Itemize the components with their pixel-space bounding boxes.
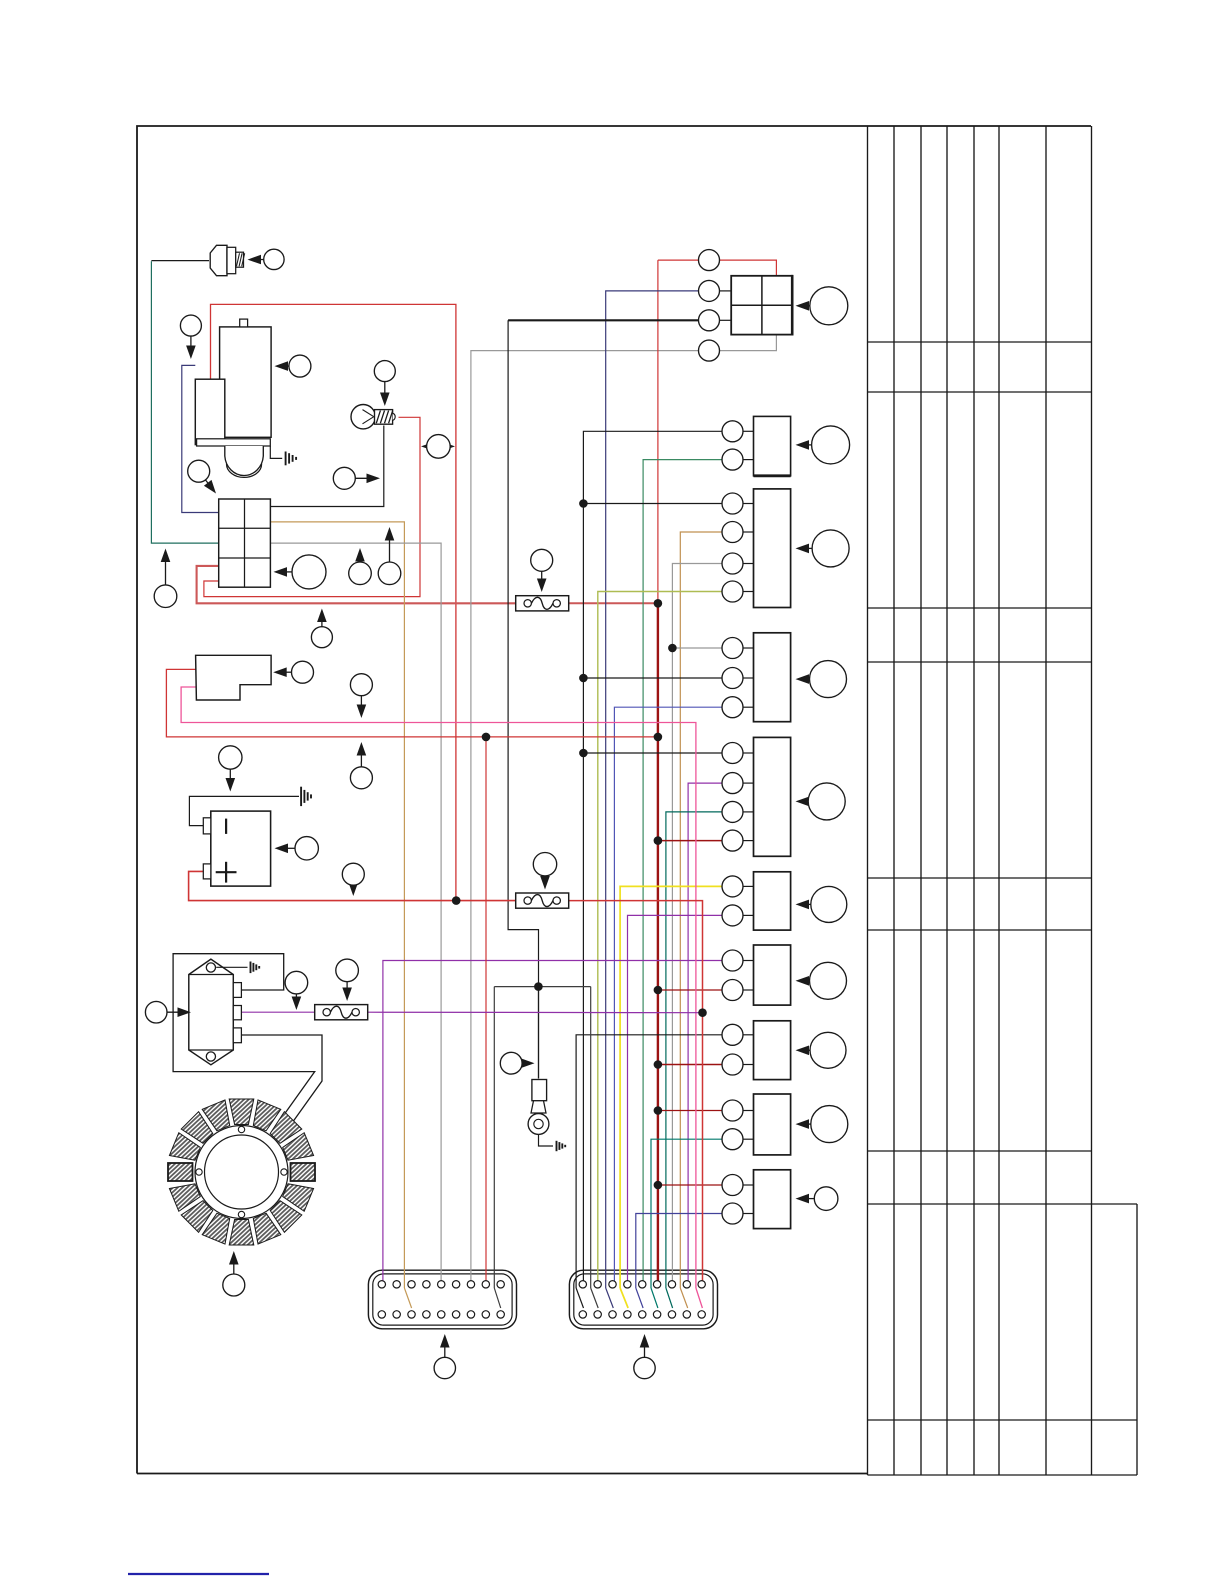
fuse F1 callout <box>541 571 543 586</box>
switch box U10 <box>754 1170 791 1229</box>
wire: gray box3 pin3 <box>672 564 722 1282</box>
U3 callout <box>802 547 813 549</box>
pin connector <box>722 1129 743 1150</box>
relay box U5 <box>754 737 791 856</box>
wire: stator lead 1 <box>241 1035 322 1127</box>
connector A pin top 2 <box>393 1281 400 1288</box>
connector A callout <box>444 1340 446 1357</box>
connector A pin top 8 <box>482 1281 489 1288</box>
wire junction <box>654 599 663 608</box>
connector B pin top 2 <box>594 1281 601 1288</box>
wire: black link stem <box>538 987 540 1079</box>
connector B pin top 9 <box>698 1281 705 1288</box>
connector A pin top 3 <box>408 1281 415 1288</box>
wire: black branch box5 pin1 <box>583 752 722 754</box>
wire: black link right arm <box>590 987 592 1288</box>
pin connector <box>722 553 743 574</box>
U7 callout <box>802 980 810 982</box>
connector B pin top 6 <box>653 1281 660 1288</box>
horn callout <box>279 671 291 673</box>
stator bolt hole <box>196 1169 202 1175</box>
connector A pin top 4 <box>423 1281 430 1288</box>
pin connector <box>722 449 743 470</box>
fuse F2 <box>516 893 569 908</box>
ring terminal callout <box>522 1062 528 1064</box>
pin connector <box>722 830 743 851</box>
pin connector <box>722 1100 743 1121</box>
connector B pin bottom 7 <box>668 1311 675 1318</box>
wire: starter ground link <box>270 446 282 458</box>
wire junction <box>654 1106 663 1115</box>
rectifier regulator <box>189 959 234 1065</box>
black-wire callout <box>355 477 374 479</box>
fuse F2 callout <box>544 876 546 884</box>
switch box U8 <box>754 1021 791 1080</box>
wire: battery positive feed <box>189 871 516 900</box>
stator coil <box>202 1100 230 1131</box>
battery minus mark <box>225 819 227 834</box>
wire: red horn feed <box>166 669 658 737</box>
connector A pin bottom 6 <box>452 1311 459 1318</box>
stator coil <box>168 1163 193 1181</box>
pin connector <box>722 581 743 602</box>
connector B pin top 4 <box>624 1281 631 1288</box>
connector B pin bottom 2 <box>594 1311 601 1318</box>
stator coil <box>270 1112 302 1144</box>
horn <box>196 655 272 700</box>
pin connector <box>722 638 743 659</box>
gray wire callout <box>359 554 361 562</box>
pin connector <box>722 950 743 971</box>
connector B pin bottom 1 <box>579 1311 586 1318</box>
key switch big callout <box>280 571 293 573</box>
connector A pin bottom 7 <box>467 1311 474 1318</box>
wire: olive box3 pin4 <box>598 592 722 1282</box>
battery ground <box>300 787 302 806</box>
U4 callout <box>802 678 810 680</box>
stator bolt hole <box>238 1126 244 1132</box>
stator callout <box>233 1257 235 1274</box>
wire: red branch connectorA pin8 <box>485 737 487 1281</box>
connector B pin top 3 <box>609 1281 616 1288</box>
pin connector <box>722 668 743 689</box>
pin connector <box>722 905 743 926</box>
connector A pin bottom 4 <box>423 1311 430 1318</box>
U1 pin 4 <box>699 340 720 361</box>
connector A pin top 9 <box>497 1281 504 1288</box>
wire: green choke pin2 <box>643 460 722 1281</box>
U6 callout <box>802 903 811 905</box>
wire: gray switch output <box>270 543 441 1281</box>
wire junction <box>654 836 663 845</box>
wire junction <box>482 733 491 742</box>
stator coil <box>229 1220 254 1246</box>
stator coil <box>169 1184 200 1212</box>
wire: black keyswitch pin3 thick <box>508 319 698 321</box>
connector A pin bottom 1 <box>378 1311 385 1318</box>
starter end dome <box>225 446 263 475</box>
U1 pin 3 <box>699 310 720 331</box>
double arrow callout <box>423 445 453 447</box>
connector A pin bottom 2 <box>393 1311 400 1318</box>
pin connector <box>722 1054 743 1075</box>
connector A pin top 1 <box>378 1281 385 1288</box>
wire: purple connectorA-to-box7 <box>383 961 722 1282</box>
fuse F3 callout <box>346 982 348 995</box>
connector A pin top 7 <box>467 1281 474 1288</box>
connector B callout <box>644 1340 646 1357</box>
switch box U9 <box>754 1094 791 1155</box>
wire: red rail upper <box>657 260 659 603</box>
wire: battery negative to ground <box>189 796 299 825</box>
connector A pin bottom 3 <box>408 1311 415 1318</box>
wire junction <box>698 1008 707 1017</box>
wire: black branch box4 pin2 <box>583 677 722 679</box>
pin connector <box>722 743 743 764</box>
red-feed callout up <box>360 748 362 767</box>
wire junction <box>654 1181 663 1190</box>
switch box U7 <box>754 945 791 1005</box>
wire: spark plug lead <box>151 260 209 262</box>
regulator ground <box>250 962 252 974</box>
wire: dark-red branch box8 pin2 <box>658 1064 722 1066</box>
wire: dark-red power rail <box>657 603 659 1281</box>
wire: purple box6 pin2 <box>628 915 723 1281</box>
pin connector <box>722 522 743 543</box>
stator coil <box>270 1201 302 1233</box>
key switch block <box>219 499 271 587</box>
red-wire callout up <box>321 615 323 627</box>
stator coil <box>181 1201 213 1233</box>
pin connector <box>722 421 743 442</box>
wire: red fuse2 to rail corner <box>569 901 703 1281</box>
connector A pin bottom 9 <box>497 1311 504 1318</box>
fuse F1 <box>516 596 569 611</box>
wire: black link left arm <box>493 987 495 1288</box>
regulator callout <box>167 1011 185 1013</box>
legend table grid <box>867 126 869 1475</box>
pin connector <box>722 1175 743 1196</box>
solenoid callout <box>190 336 192 353</box>
wire: red solenoid feed <box>211 304 456 900</box>
wire junction <box>668 644 677 653</box>
pin connector <box>722 1203 743 1224</box>
connector A housing <box>368 1270 516 1329</box>
stator coil <box>181 1112 213 1144</box>
wire: dark-red branch box10 pin1 <box>658 1184 722 1186</box>
wire junction <box>579 749 588 758</box>
connector A pin bottom 5 <box>438 1311 445 1318</box>
stator bolt hole <box>238 1211 244 1217</box>
U1 pin 2 <box>699 280 720 301</box>
stator bolt hole <box>281 1169 287 1175</box>
stator coil <box>229 1099 254 1125</box>
U2 callout <box>802 444 812 446</box>
switch box U6 <box>754 872 791 930</box>
wire: branch box3 pin1 <box>583 503 722 505</box>
wire: tan switch output <box>270 522 404 1288</box>
wire junction <box>654 986 663 995</box>
pin connector <box>722 697 743 718</box>
connector B housing <box>569 1270 717 1329</box>
stator coil <box>283 1133 314 1161</box>
starter motor <box>220 327 272 437</box>
stator coil <box>283 1184 314 1212</box>
stator coil <box>253 1213 280 1244</box>
pin connector <box>722 1024 743 1045</box>
purple wire callout <box>295 994 297 1004</box>
wire: keyswitch red loop right <box>720 260 777 276</box>
wire: black link bar <box>494 986 590 988</box>
wire: tan box3 pin2 <box>680 532 722 1288</box>
wire: red fuse1 to rail <box>569 602 658 604</box>
stator coil <box>253 1100 280 1131</box>
pin connector <box>722 980 743 1001</box>
keyswitch assy box U1 <box>731 276 792 335</box>
wire junction <box>534 982 543 991</box>
relay box U4 <box>754 633 791 722</box>
wire: purple box5 pin2 <box>688 783 722 1281</box>
fuse F3 <box>315 1005 368 1020</box>
pin connector <box>722 493 743 514</box>
wire: purple fuse3 to rail <box>367 1011 703 1014</box>
pin connector <box>722 801 743 822</box>
relay box U3 <box>754 489 791 608</box>
wire: dark-red branch box5 pin4 <box>658 840 722 842</box>
wire: red keyswitch pin1 <box>658 259 699 261</box>
wire: purple regulator to fuse3 <box>241 1011 315 1013</box>
starter ground <box>285 452 287 466</box>
pin connector <box>722 876 743 897</box>
connector B pin bottom 9 <box>698 1311 705 1318</box>
wire junction <box>579 674 588 683</box>
wire: regulator ground link <box>216 966 247 968</box>
U8 callout <box>802 1049 811 1051</box>
U1 callout <box>802 305 810 307</box>
stator coil <box>291 1163 316 1181</box>
wire: blue-violet box4 pin3 <box>614 707 722 1281</box>
wire: black switch-to-bulb <box>270 426 383 507</box>
indicator bulb <box>351 405 375 429</box>
wire: black box8 pin1 <box>576 1035 722 1288</box>
wire: navy keyswitch pin2 <box>606 291 699 1288</box>
wire: red bulb loop <box>204 417 420 596</box>
stator coil <box>202 1213 230 1244</box>
connector A pin top 6 <box>452 1281 459 1288</box>
connector A pin top 5 <box>438 1281 445 1288</box>
starter solenoid <box>195 379 225 444</box>
pin connector <box>722 773 743 794</box>
wire: teal box5 pin3 <box>666 812 722 1288</box>
pink-wire callout down <box>360 696 362 712</box>
wire: pink horn wire <box>181 687 696 1288</box>
wire: red switch-to-fuse loop <box>197 566 516 603</box>
inline fuse holder <box>532 1080 547 1101</box>
U10 callout <box>802 1198 815 1200</box>
wire junction <box>654 1060 663 1069</box>
spark plug <box>210 245 227 275</box>
stator magneto <box>195 1126 288 1219</box>
starter base plate <box>197 439 271 446</box>
bulb callout <box>384 382 386 400</box>
wire: navy box10 pin2 <box>636 1214 722 1289</box>
connector A pin bottom 8 <box>482 1311 489 1318</box>
wire: ring terminal ground link <box>539 1135 554 1147</box>
wire junction <box>654 733 663 742</box>
bulb socket <box>375 410 393 425</box>
footer rule <box>128 1573 269 1575</box>
wire: black accessory rail <box>583 431 722 1281</box>
wire: gray keyswitch pin4 <box>471 351 699 1281</box>
spark plug callout <box>253 258 263 260</box>
battery callout top <box>229 769 231 785</box>
wire: teal plug-to-switch <box>151 261 218 543</box>
connector B pin top 7 <box>668 1281 675 1288</box>
wire: gray branch box4 pin1 <box>672 647 722 649</box>
connector B pin bottom 4 <box>624 1311 631 1318</box>
battery plus mark <box>225 862 227 883</box>
wire junction <box>579 499 588 508</box>
connector B pin bottom 6 <box>653 1311 660 1318</box>
battery callout right <box>281 847 296 849</box>
stator coil <box>169 1133 200 1161</box>
U5 callout <box>802 800 809 802</box>
wire: dark-red branch box9 pin1 <box>658 1110 722 1112</box>
ring terminal <box>531 1101 546 1113</box>
connector B pin bottom 8 <box>683 1311 690 1318</box>
U1 pin 1 <box>699 250 720 271</box>
connector B pin top 8 <box>683 1281 690 1288</box>
wire: keyswitch gray loop right <box>720 335 777 351</box>
wire: stator lead 2 <box>173 954 315 1118</box>
wire: dark-red branch box7 pin2 <box>658 989 722 991</box>
battery red callout <box>352 885 354 890</box>
wire: yellow box6 pin1 <box>620 886 722 1288</box>
wire: navy solenoid-to-switch <box>182 365 219 512</box>
choke solenoid box U2 <box>754 416 791 475</box>
starter callout <box>281 365 289 367</box>
battery <box>211 811 271 886</box>
wire junction <box>452 896 461 905</box>
diagram border frame <box>137 126 1091 1474</box>
regulator pin tabs <box>233 983 241 998</box>
key switch callout <box>205 480 212 489</box>
connector B pin top 1 <box>579 1281 586 1288</box>
tan wire callout <box>389 533 391 562</box>
connector B pin bottom 5 <box>639 1311 646 1318</box>
wire: teal box9 pin2 <box>651 1139 722 1288</box>
connector B pin top 5 <box>639 1281 646 1288</box>
teal wire callout <box>165 555 167 585</box>
ring terminal ground <box>556 1141 558 1151</box>
U9 callout <box>802 1123 811 1125</box>
connector B pin bottom 3 <box>609 1311 616 1318</box>
